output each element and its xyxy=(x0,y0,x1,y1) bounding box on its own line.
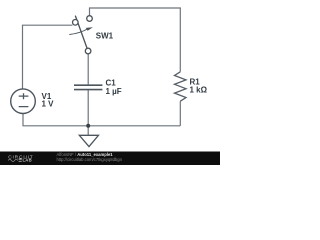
svg-text:☰LAB: ☰LAB xyxy=(18,158,32,163)
svg-text:SW1: SW1 xyxy=(96,32,114,41)
svg-text:1 kΩ: 1 kΩ xyxy=(190,86,208,95)
svg-text:1 µF: 1 µF xyxy=(106,87,122,96)
svg-text:1 V: 1 V xyxy=(42,100,55,109)
svg-text:http://circuitlab.com/c7tkgxyq: http://circuitlab.com/c7tkgxyq8dbgn xyxy=(57,157,123,162)
